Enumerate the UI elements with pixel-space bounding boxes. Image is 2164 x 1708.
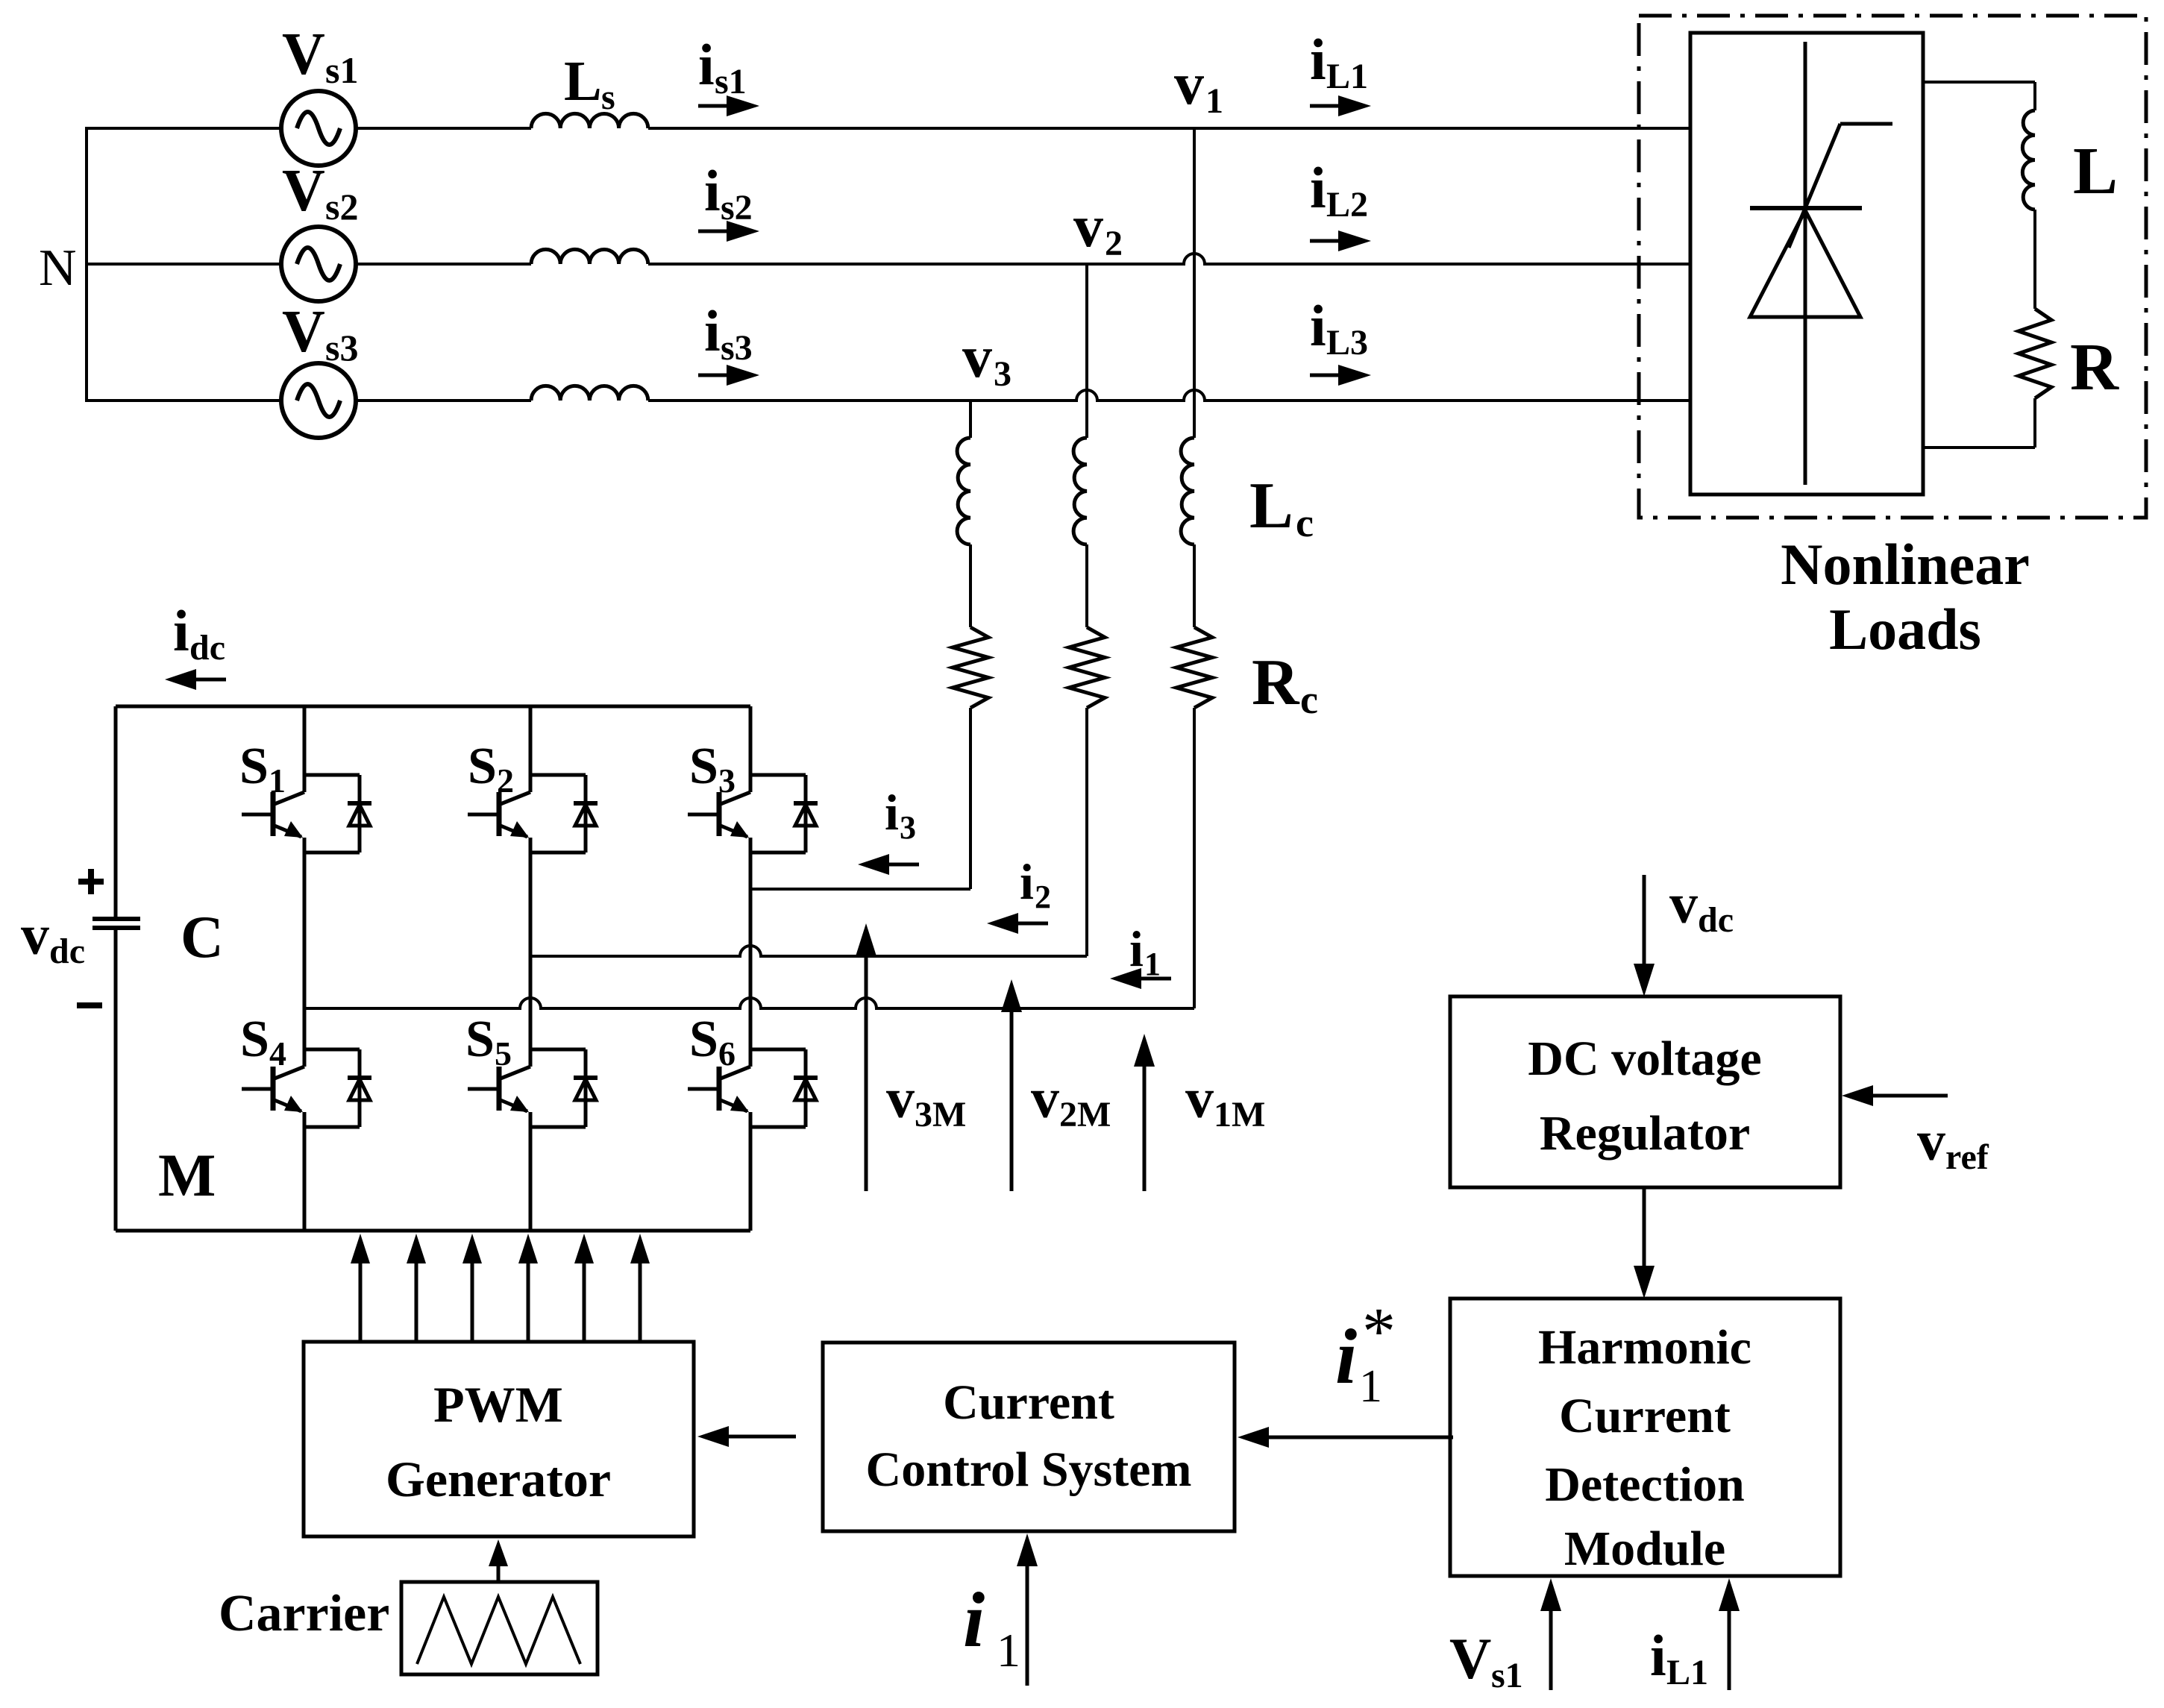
label v2M [1031,1067,1111,1134]
arrow i3 [858,854,919,875]
svg-text:1M: 1M [1214,1095,1265,1134]
svg-text:i: i [1335,1313,1357,1400]
label is2 [704,158,753,227]
inductor L (load) [2022,110,2035,210]
svg-text:3M: 3M [915,1095,966,1134]
label plus [78,869,104,894]
svg-text:dc: dc [189,628,225,668]
Harmonic Current Detection Module box [1450,1299,1840,1576]
arrow iL1 into harmonic module [1728,1611,1731,1690]
svg-text:S: S [239,738,269,795]
label is1 [698,32,747,101]
arrow regulator to harmonic module [1643,1187,1646,1266]
arrow vref into regulator [1873,1094,1948,1098]
wire rectifier to L [1923,82,2035,110]
label iL1 (input) [1650,1623,1708,1692]
svg-text:i: i [1310,293,1326,358]
label S3 [689,738,736,800]
label minus [77,1002,102,1008]
svg-text:L: L [564,50,602,113]
label iL1 [1310,27,1368,96]
wire phase 1 to nonlinear load [648,127,1690,130]
label Lc [1249,470,1314,545]
label i1 (measured current) [963,1576,1020,1677]
svg-text:i: i [1650,1623,1666,1688]
arrow Vs1 into harmonic module [1549,1611,1553,1690]
svg-text:ref: ref [1945,1137,1989,1177]
svg-text:L: L [1249,470,1293,542]
arrow gate drive 708 [527,1263,530,1342]
svg-text:Carrier: Carrier [219,1585,389,1642]
svg-text:2: 2 [1105,224,1123,263]
svg-text:R: R [2070,330,2119,404]
svg-text:v: v [1031,1067,1059,1130]
wire v3 tap to inverter leg3 line [969,708,972,889]
resistor R (load) [2019,309,2051,398]
svg-text:S: S [689,738,718,795]
wire v3 tap down [969,401,972,438]
wire phase 2 (Vs2 to Ls2) [356,263,531,266]
svg-text:s1: s1 [1491,1656,1523,1695]
wire v1 tap down [1193,128,1196,438]
wire leg1 output to v1 tap (hops over leg2, leg3, v3M) [304,998,1194,1008]
label i1* (reference current) [1335,1295,1396,1412]
label Ls [564,50,615,117]
svg-text:i: i [173,598,189,663]
svg-text:i: i [1310,155,1326,220]
svg-text:s1: s1 [715,62,747,101]
svg-text:V: V [1449,1626,1491,1691]
svg-text:N: N [39,239,77,297]
svg-text:i: i [963,1576,985,1663]
arrow gate drive 858 [639,1263,642,1342]
label Rc [1252,647,1318,722]
wire neutral to Vs1 [85,127,281,130]
wire Lc to Rc at x=1301 [969,544,972,627]
wire inverter leg2 [529,706,533,1231]
svg-text:DC voltage: DC voltage [1528,1032,1761,1086]
svg-text:s2: s2 [721,188,753,227]
label S4 [240,1011,286,1073]
svg-text:L1: L1 [1666,1653,1708,1692]
label Vs1 [282,22,358,91]
transistor S1 (IGBT with antiparallel diode) [242,775,371,853]
wire phase 1 (Vs1 to Ls1) [356,127,531,130]
svg-text:M: M [158,1141,216,1209]
arrow i2 [987,913,1048,934]
svg-text:3: 3 [994,354,1012,394]
svg-text:s2: s2 [325,186,358,227]
svg-text:S: S [240,1011,269,1068]
arrow gate drive 483 [359,1263,363,1342]
thyristor symbol [1750,42,1892,485]
arrow vdc into regulator [1643,875,1646,964]
inductor Lc at x=1301 [957,438,970,544]
svg-text:V: V [282,158,325,224]
svg-text:L: L [2073,134,2118,208]
svg-text:Regulator: Regulator [1540,1106,1750,1161]
transistor S2 (IGBT with antiparallel diode) [468,775,598,853]
svg-text:v: v [962,324,992,390]
wire v1 tap to inverter leg1 line [1193,708,1196,1008]
svg-text:2: 2 [497,762,514,800]
svg-text:S: S [465,1011,495,1068]
svg-text:1: 1 [269,762,286,800]
svg-text:C: C [181,905,224,970]
svg-text:Detection: Detection [1545,1457,1745,1512]
arrow iL2 [1310,230,1371,251]
label S1 [239,738,286,800]
svg-text:*: * [1362,1295,1396,1369]
svg-text:dc: dc [49,932,85,971]
arrow is1 [698,95,759,116]
wire phase 3 (Vs3 to Ls3) [356,399,531,402]
label iL2 [1310,155,1368,225]
wire Lc to Rc at x=1457 [1085,544,1088,627]
svg-text:L2: L2 [1326,185,1368,225]
transistor S5 (IGBT with antiparallel diode) [468,1049,598,1127]
svg-text:Module: Module [1564,1522,1725,1576]
label idc [173,598,225,668]
svg-text:L3: L3 [1326,323,1368,362]
arrow Carrier to PWM [497,1566,501,1582]
nonlinear loads dash-dot box [1639,16,2146,518]
AC source Vs2 [281,227,356,301]
svg-text:c: c [1296,500,1314,545]
label i2 [1020,853,1051,915]
arrow iL1 [1310,95,1371,116]
wire neutral to Vs2 [85,263,281,266]
wire v2 tap to inverter leg2 line [1085,708,1088,956]
svg-text:4: 4 [269,1034,286,1073]
arrow i1 into CCS [1026,1566,1029,1686]
wire phase 2 to nonlinear load (hop over v1 tap) [648,254,1690,264]
arrow v3M [865,956,868,1191]
inductor Lc at x=1601 [1181,438,1194,544]
label i1 [1129,920,1161,982]
label is3 [704,298,753,368]
wire v2 tap down [1085,264,1088,438]
transistor S4 (IGBT with antiparallel diode) [242,1049,371,1127]
svg-text:6: 6 [718,1034,736,1073]
label vdc (input) [1669,873,1734,940]
arrow gate drive 633 [471,1263,474,1342]
label iL3 [1310,293,1368,362]
arrow is3 [698,365,759,386]
label i3 [885,784,916,846]
inductor Lc at x=1457 [1073,438,1087,544]
svg-text:PWM: PWM [433,1376,563,1433]
svg-text:v: v [886,1067,915,1130]
svg-text:v: v [1185,1067,1214,1130]
svg-text:s1: s1 [325,49,358,91]
wire DC bottom rail [116,1229,750,1233]
svg-text:Current: Current [1559,1389,1731,1443]
arrow CCS to PWM [729,1435,796,1439]
svg-text:s3: s3 [721,328,753,368]
wire inverter leg1 [303,706,307,1231]
svg-text:v: v [1073,194,1103,260]
AC source Vs3 [281,363,356,438]
svg-text:2M: 2M [1059,1095,1111,1134]
svg-text:3: 3 [900,809,916,846]
svg-text:i: i [1129,920,1144,977]
svg-text:dc: dc [1698,900,1734,940]
svg-text:Control System: Control System [866,1442,1192,1497]
arrow gate drive 783 [583,1263,586,1342]
svg-text:i: i [1310,27,1326,92]
svg-text:c: c [1300,677,1318,722]
transistor S6 (IGBT with antiparallel diode) [688,1049,818,1127]
svg-text:Current: Current [943,1375,1114,1430]
svg-text:R: R [1252,647,1300,719]
node v1 [1174,51,1223,121]
node v3 [962,324,1012,394]
wire inverter leg3 [749,706,753,1231]
label vref [1917,1110,1989,1177]
arrow iL3 [1310,365,1371,386]
svg-text:1: 1 [1359,1361,1382,1412]
resistor Rc at x=1601 [1176,627,1212,708]
inductor Ls phase 1 [531,113,648,128]
arrow gate drive 558 [415,1263,418,1342]
label S6 [689,1011,736,1073]
svg-text:v: v [1669,873,1698,935]
svg-text:i: i [704,298,721,363]
arrow v2M [1010,1012,1014,1191]
wire DC top rail [116,705,750,709]
label v3M [886,1067,966,1134]
PWM Generator box [304,1342,694,1536]
label S2 [468,738,514,800]
svg-text:v: v [1917,1110,1945,1172]
label v1M [1185,1067,1265,1134]
wire R to rectifier [1923,398,2035,448]
svg-text:v: v [21,904,49,967]
svg-text:2: 2 [1035,879,1051,915]
svg-text:S: S [689,1011,718,1068]
arrow i1* harmonic module to CCS [1269,1436,1453,1439]
resistor Rc at x=1457 [1069,627,1105,708]
arrow idc [165,669,226,690]
svg-text:1: 1 [1205,81,1223,121]
capacitor C (DC link) [92,706,140,1231]
svg-text:Loads: Loads [1829,597,1981,662]
node N (neutral bus) [85,128,88,401]
Current Control System box [823,1343,1235,1531]
svg-text:L1: L1 [1326,57,1368,96]
svg-text:5: 5 [495,1034,512,1073]
label Nonlinear Loads [1781,532,2030,662]
arrow v1M [1143,1067,1147,1191]
DC voltage Regulator box [1450,996,1840,1187]
rectifier box [1690,33,1923,494]
svg-text:s: s [601,78,615,117]
node v2 [1073,194,1123,263]
svg-text:i: i [1020,853,1034,910]
svg-text:v: v [1174,51,1204,117]
svg-text:i: i [885,784,899,841]
svg-text:s3: s3 [325,327,358,368]
arrow i1 [1110,968,1171,989]
svg-text:Harmonic: Harmonic [1538,1320,1751,1375]
arrow is2 [698,221,759,242]
svg-text:i: i [698,32,715,97]
wire leg2 output to v2 tap (hop over leg3) [530,946,1087,956]
svg-text:V: V [282,299,325,365]
label Vs2 [282,158,358,227]
wire neutral to Vs3 [85,399,281,402]
label Vs3 [282,299,358,368]
wire L to R [2033,210,2036,309]
svg-text:Generator: Generator [386,1451,611,1507]
svg-text:i: i [704,158,721,223]
label S5 [465,1011,512,1073]
wire phase 3 to nonlinear load (hops over v2,v1 taps) [648,390,1690,401]
label vdc (DC link) [21,904,85,971]
inductor Ls phase 3 [531,386,648,401]
transistor S3 (IGBT with antiparallel diode) [688,775,818,853]
AC source Vs1 [281,91,356,166]
label Vs1 (input) [1449,1626,1523,1695]
wire Lc to Rc at x=1601 [1193,544,1196,627]
Carrier box with triangle wave [401,1582,598,1674]
svg-text:3: 3 [718,762,736,800]
svg-text:Nonlinear: Nonlinear [1781,532,2030,597]
resistor Rc at x=1301 [953,627,988,708]
svg-text:1: 1 [997,1624,1020,1677]
svg-text:S: S [468,738,497,795]
svg-text:V: V [282,22,325,87]
inductor Ls phase 2 [531,249,648,264]
wire leg3 output to v3 tap [750,888,970,891]
